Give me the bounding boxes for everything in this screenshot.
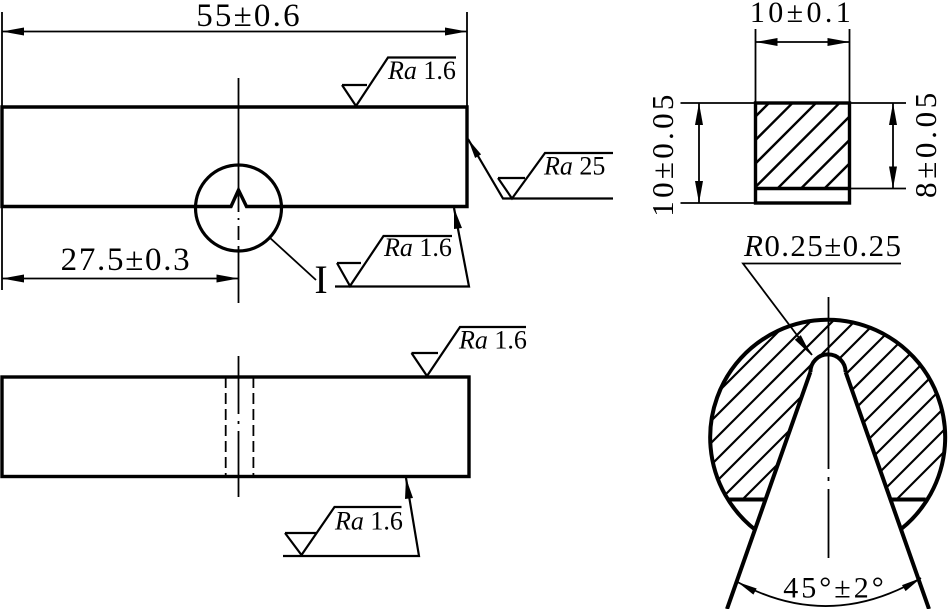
hatch boundary line (756, 187, 850, 190)
centerline of notch (view 1) (238, 78, 240, 303)
leader to detail label I (269, 237, 316, 280)
svg-text:Ra 1.6: Ra 1.6 (383, 233, 452, 262)
dimension line 10±0.1 (756, 41, 850, 43)
hidden line left (225, 377, 227, 477)
roughness symbol Ra 25 with leader to right edge (468, 139, 613, 199)
svg-text:Ra 25: Ra 25 (543, 152, 605, 181)
svg-text:I: I (314, 257, 327, 302)
svg-text:10±0.1: 10±0.1 (750, 0, 854, 29)
svg-text:8±0.05: 8±0.05 (908, 89, 943, 198)
bottom surface line right (891, 498, 925, 502)
dimension line 27.5±0.3 (2, 278, 239, 280)
extension line left (1, 12, 3, 290)
bottom view outline (2, 377, 469, 477)
svg-text:45°±2°: 45°±2° (783, 572, 886, 605)
detail boundary circle I (196, 165, 282, 251)
dimension line 55±0.6 (2, 31, 467, 33)
svg-text:55±0.6: 55±0.6 (196, 0, 302, 34)
extension lines 8±0.05 (850, 102, 907, 104)
svg-text:Ra 1.6: Ra 1.6 (387, 56, 456, 85)
notch tip arc R0.25 (810, 354, 845, 372)
notch left flank (727, 372, 810, 609)
extension lines 10±0.05 (681, 102, 756, 104)
detail hatching (490, 230, 948, 609)
dimension line 8±0.05 (892, 103, 894, 189)
svg-text:Ra 1.6: Ra 1.6 (458, 326, 527, 355)
centerline (view 2) (238, 356, 240, 497)
dimension line 10±0.05 (698, 103, 700, 203)
svg-text:Ra 1.6: Ra 1.6 (334, 507, 403, 536)
svg-text:10±0.05: 10±0.05 (645, 91, 680, 216)
section hatching (672, 75, 948, 200)
roughness symbol Ra 1.6 leader to bottom edge (view 2) (283, 478, 419, 556)
roughness symbol Ra 1.6 leader to bottom edge (view 1) (335, 208, 469, 287)
roughness symbol Ra 1.6 on top edge (342, 58, 456, 107)
roughness symbol Ra 1.6 on top edge (view 2) (412, 327, 527, 376)
extension lines 10±0.1 (755, 29, 757, 103)
hidden line right (252, 377, 254, 477)
bottom surface line left (727, 498, 764, 502)
detail circle arc (clipped at notch opening) (710, 320, 945, 530)
centerline (detail) (828, 297, 830, 558)
svg-text:27.5±0.3: 27.5±0.3 (61, 242, 192, 278)
front view outline with V-notch (2, 107, 467, 207)
angle dimension arc 45° (738, 578, 922, 606)
extension line right (466, 12, 468, 107)
svg-text:R0.25±0.25: R0.25±0.25 (743, 228, 902, 263)
leader R0.25±0.25 (743, 264, 901, 356)
section square outline (756, 103, 850, 203)
notch right flank (846, 372, 929, 609)
